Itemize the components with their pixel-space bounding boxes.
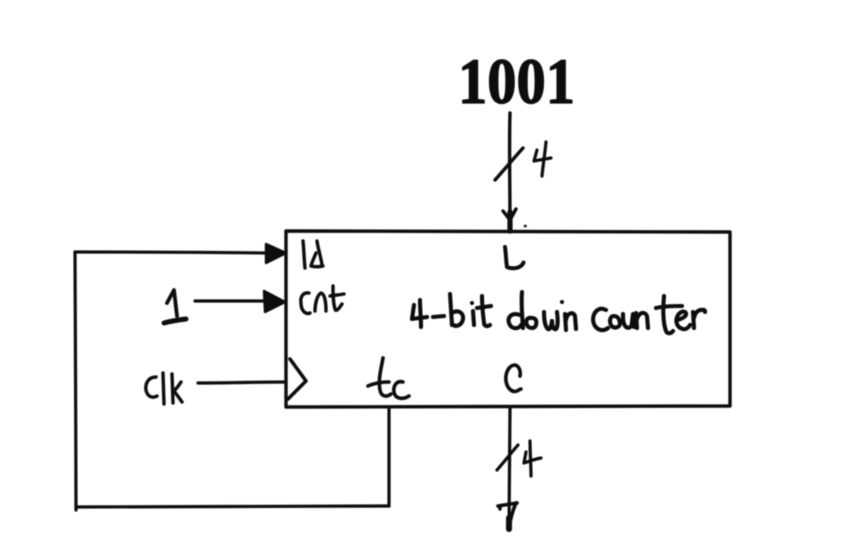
arrowhead at ld pin <box>266 244 286 263</box>
arrowhead at C bus end <box>498 503 517 529</box>
feedback wire: left vertical segment <box>75 252 76 510</box>
wire bus from C output <box>509 408 510 527</box>
pin label L <box>505 247 524 268</box>
pin label cnt <box>301 286 344 313</box>
svg-text:1001: 1001 <box>458 46 575 118</box>
bus-width label 4 (top) <box>534 142 551 176</box>
arrowhead at cnt pin <box>264 291 285 312</box>
feedback wire: bottom horizontal segment <box>76 506 389 507</box>
pin label tc <box>368 358 409 398</box>
block title 4-bit down counter <box>412 292 705 333</box>
bus-width label 4 (bottom) <box>524 441 541 476</box>
feedback wire: tc down segment <box>387 408 390 506</box>
bus-width slash (bottom) <box>497 445 518 470</box>
pin label C <box>506 365 521 391</box>
clock pin chevron <box>288 359 306 399</box>
wire from 1 to cnt pin <box>195 299 266 302</box>
arrowhead into L pin <box>503 209 526 231</box>
constant label 1 <box>164 290 186 323</box>
wire from clk to clock pin <box>198 382 286 383</box>
wire bus from 1001 to L input <box>508 113 512 229</box>
bus-width slash (top) <box>495 148 523 180</box>
feedback wire: top horizontal segment to ld <box>75 252 267 253</box>
pin label ld <box>303 241 323 268</box>
counter block U1 <box>286 231 730 407</box>
clk label <box>146 373 182 404</box>
